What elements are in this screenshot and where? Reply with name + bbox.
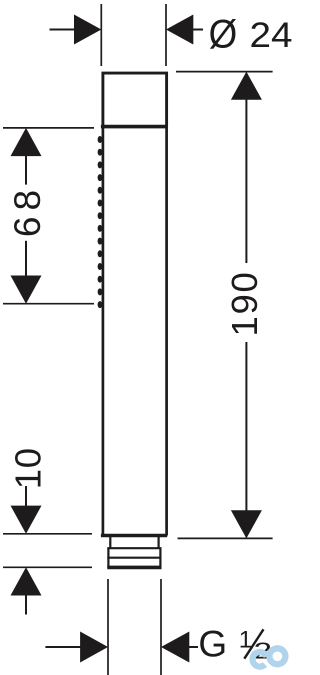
dimension line G1/2 left tail [45, 646, 81, 648]
connector bottom line [107, 566, 161, 570]
svg-text:10: 10 [7, 447, 48, 489]
extension tick bottom of 68 [3, 303, 94, 305]
arrow G1/2 right [161, 632, 189, 663]
dimension line 190 upper [245, 99, 247, 263]
connector neck right [158, 537, 160, 549]
dimension line 68 lower [25, 241, 27, 276]
extension line bottom of 190 [178, 537, 273, 539]
dimension line 10 [25, 486, 27, 507]
dimension line dia24 left tail [50, 29, 76, 31]
handle body left edge [102, 127, 105, 536]
handle body bottom line [101, 534, 167, 538]
connector thread line 2 [107, 557, 161, 559]
connector thread line 1 [107, 547, 161, 549]
watermark letter c [253, 652, 267, 667]
svg-text:G: G [198, 624, 227, 665]
extension tick top of 68 [3, 127, 94, 129]
arrow 10 up from below [11, 567, 42, 595]
arrow 68 bottom [11, 276, 42, 304]
connector thread left [107, 548, 109, 568]
svg-text:24: 24 [250, 16, 293, 55]
handle body right edge [165, 127, 168, 536]
head/body divider line [101, 125, 168, 129]
arrow 190 top [231, 72, 262, 100]
arrow 190 bottom [231, 510, 262, 538]
dimension line dia24 right tail [193, 29, 204, 31]
svg-text:Ø: Ø [209, 12, 238, 56]
knurl dots on grip [98, 136, 103, 308]
extension line top of 10 [3, 533, 92, 535]
fraction slash [244, 629, 263, 658]
shower head outline [103, 73, 167, 126]
svg-text:68: 68 [7, 184, 48, 237]
arrow dia24 left [74, 15, 101, 45]
arrow 10 down [11, 506, 42, 534]
extension line left of dia24 [100, 4, 102, 66]
dimension line 68 upper [25, 155, 27, 184]
connector neck left [109, 537, 111, 549]
extension line bottom of 10 [3, 566, 92, 568]
arrow 68 top [11, 128, 42, 156]
svg-text:190: 190 [224, 271, 265, 337]
extension line right of G1/2 [160, 579, 162, 675]
dimension tail below 10 arrow [25, 595, 27, 615]
extension line top of 190 [176, 71, 273, 73]
arrow dia24 right [166, 15, 193, 45]
extension line left of G1/2 [107, 579, 109, 675]
dimension line G1/2 right tail [189, 646, 199, 648]
arrow G1/2 left [80, 632, 108, 663]
watermark letter o [269, 648, 285, 664]
dimension line 190 lower [245, 342, 247, 511]
extension line right of dia24 [165, 4, 167, 66]
connector thread right [159, 548, 161, 568]
